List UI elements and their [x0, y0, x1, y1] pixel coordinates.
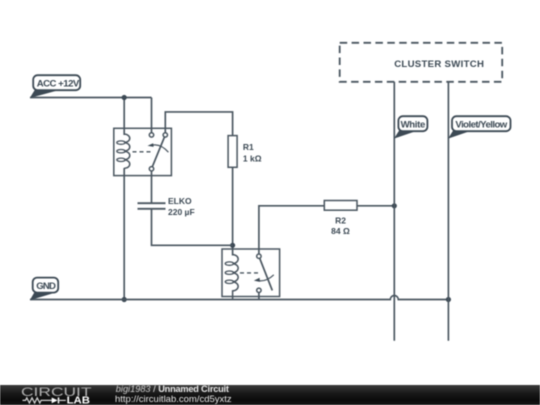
wire White vertical from cluster switch: [393, 82, 395, 341]
svg-text:LAB: LAB: [67, 395, 90, 405]
svg-text:R1: R1: [243, 142, 254, 152]
resistor R1: [228, 136, 237, 168]
svg-text:84 Ω: 84 Ω: [331, 226, 350, 236]
wire capacitor to node: [152, 209, 233, 246]
footer bar: [0, 385, 540, 405]
node junction R2/White: [392, 203, 397, 208]
relay K1 body: [114, 128, 172, 175]
resistor R2: [324, 201, 357, 211]
logo resistor symbol: [23, 397, 53, 402]
node junction GND/VioletYellow: [446, 297, 451, 302]
svg-text:Violet/Yellow: Violet/Yellow: [455, 120, 507, 131]
svg-text:GND: GND: [36, 281, 56, 292]
wire GND rail with hop over White: [30, 296, 448, 300]
net flag ACC +12V: [30, 75, 80, 98]
wire R1 bottom to node: [232, 167, 234, 255]
wire K1 NC contact lead: [151, 98, 153, 133]
logo diode symbol: [52, 397, 58, 403]
wire K1 coil bottom to GND rail: [123, 168, 125, 300]
net flag White: [394, 116, 427, 138]
footer url text: [115, 395, 232, 405]
net flag GND: [30, 278, 58, 301]
wire ACC +12V rail: [30, 97, 152, 99]
node junction GND/coil: [122, 297, 127, 302]
svg-text:ELKO: ELKO: [168, 196, 192, 206]
svg-text:White: White: [401, 120, 425, 131]
svg-text:ACC +12V: ACC +12V: [37, 79, 80, 90]
node junction ACC/coil: [122, 95, 127, 100]
wire K1 common to capacitor: [151, 171, 153, 203]
CircuitLab logo: [0, 385, 110, 405]
wire K2 contact bottom to GND: [258, 293, 260, 300]
wire Violet/Yellow vertical from cluster switch: [447, 82, 449, 341]
svg-text:220 µF: 220 µF: [168, 207, 195, 217]
wire R2 to White line: [357, 205, 394, 207]
cluster switch dashed box: [340, 43, 503, 82]
net flag Violet/Yellow: [448, 116, 510, 138]
capacitor ELKO: [138, 203, 166, 209]
node junction R1/cap/K2-coil: [230, 243, 235, 248]
wire relay K1 coil top lead: [123, 98, 125, 136]
footer title text: [116, 385, 229, 395]
wire K1 NO contact to R1 top: [165, 112, 232, 136]
relay K2 body: [222, 249, 280, 300]
svg-text:1 kΩ: 1 kΩ: [243, 154, 262, 164]
svg-text:R2: R2: [335, 216, 346, 226]
svg-text:CLUSTER SWITCH: CLUSTER SWITCH: [394, 59, 484, 70]
wire K2 top contact to R2: [259, 206, 324, 254]
